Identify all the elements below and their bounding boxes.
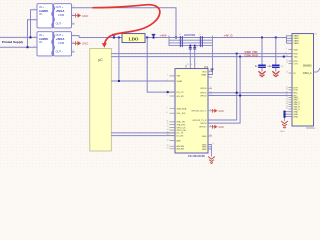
svg-text:6: 6	[167, 95, 168, 97]
svg-text:STA_TX1: STA_TX1	[177, 121, 187, 124]
wire: +5V from PS1 OUT+ along top	[72, 8, 177, 38]
capacitor C2 to GND	[269, 38, 284, 72]
power port GND at PS2 COM	[76, 41, 89, 46]
wire: main rail to LDO input	[79, 37, 122, 39]
ground symbol below IC	[208, 157, 215, 164]
regulator LDO	[122, 34, 145, 43]
ferrite bead column right	[200, 36, 202, 47]
svg-text:TXD: TXD	[294, 56, 299, 58]
junction RX on wire2	[239, 95, 241, 97]
svg-text:5: 5	[286, 48, 287, 50]
wire: supply rail A from left edge	[0, 36, 37, 38]
junction cap C1	[261, 37, 263, 39]
svg-text:IC1: IC1	[204, 65, 209, 69]
svg-text:15: 15	[210, 135, 212, 137]
svg-text:VCAP: VCAP	[177, 80, 183, 83]
DC-DC module PS1 (isolated converter, top)	[37, 4, 72, 28]
svg-text:GND: GND	[82, 42, 88, 46]
svg-text:1: 1	[34, 36, 35, 38]
svg-text:5: 5	[167, 91, 168, 93]
svg-text:GPIO17: GPIO17	[199, 127, 207, 129]
junction: drop B	[146, 37, 148, 39]
wire: vertical to PSU1 IN+	[31, 10, 38, 38]
junction on rail A	[30, 36, 32, 38]
junction UART TX drop	[236, 53, 238, 55]
capacitor on tap 1	[189, 48, 192, 49]
svg-text:23: 23	[210, 87, 212, 89]
svg-text:6: 6	[191, 64, 192, 66]
filter designators	[179, 34, 201, 48]
wire: IC right to SIM wire 2	[208, 95, 292, 97]
wire: uC lower pair to IC 1	[111, 132, 175, 134]
wire: main rail right section to SIM module	[213, 37, 287, 39]
svg-text:4: 4	[286, 42, 287, 44]
wire: PS2 OUT+ to main rail	[72, 36, 80, 38]
pin stub PS2 COM	[72, 42, 76, 44]
wire: uC lower pair to IC 2	[111, 135, 175, 137]
svg-text:GND: GND	[202, 149, 207, 151]
wire: drop B down to IC pin	[147, 38, 175, 93]
svg-text:1: 1	[167, 75, 168, 77]
svg-text:IN +: IN +	[39, 5, 44, 9]
filter line 1	[169, 37, 213, 39]
svg-text:7: 7	[195, 64, 196, 66]
svg-text:GND: GND	[218, 110, 224, 113]
power port at IC right pin	[210, 69, 213, 72]
svg-text:RXD: RXD	[294, 53, 299, 55]
wire: UART RX from uC to SIM	[111, 56, 292, 58]
svg-text:15: 15	[286, 72, 288, 74]
junction tap1	[189, 45, 191, 47]
svg-text:LDO: LDO	[129, 37, 139, 42]
svg-text:GPIO26_CLK_T: GPIO26_CLK_T	[191, 111, 207, 113]
junction at +4V power port	[153, 37, 155, 39]
svg-text:VIN: VIN	[177, 76, 181, 78]
svg-text:OUT +: OUT +	[56, 33, 64, 37]
svg-text:UC_RX: UC_RX	[177, 135, 185, 137]
wire: LDO output rail	[145, 37, 169, 39]
svg-text:+4V_G: +4V_G	[224, 34, 234, 38]
svg-text:COM: COM	[58, 41, 64, 45]
junction TX on wire1	[236, 92, 238, 94]
svg-text:CTS: CTS	[294, 63, 299, 65]
svg-text:16: 16	[210, 126, 212, 128]
svg-text:Printed Supply: Printed Supply	[2, 40, 24, 44]
red annotation arrow	[93, 5, 160, 48]
svg-text:DCD: DCD	[294, 90, 299, 92]
svg-text:µC: µC	[98, 58, 103, 62]
svg-text:16: 16	[167, 134, 169, 136]
pin stub PS2 OUT-	[72, 51, 75, 53]
left bar	[168, 36, 170, 46]
svg-text:VDD: VDD	[294, 49, 299, 51]
junction cap C2	[275, 37, 277, 39]
IC GND pins to ground	[208, 145, 212, 157]
ferrite bead column left	[180, 36, 182, 47]
svg-text:ADCIN1: ADCIN1	[177, 148, 185, 151]
svg-text:OUT -: OUT -	[56, 50, 63, 54]
svg-text:VDD: VDD	[202, 72, 207, 74]
svg-text:+5V/1A: +5V/1A	[56, 9, 65, 13]
svg-text:2: 2	[34, 18, 35, 20]
svg-text:OUT -: OUT -	[56, 22, 63, 26]
svg-text:SCL_SCL: SCL_SCL	[177, 113, 187, 115]
svg-text:22: 22	[286, 89, 288, 91]
power port GND at PS1 COM	[76, 13, 89, 18]
svg-text:20: 20	[210, 110, 212, 112]
svg-text:SIM800L: SIM800L	[306, 128, 316, 130]
capacitor C1 to GND	[255, 38, 270, 72]
svg-text:15: 15	[167, 132, 169, 134]
pin stub PS1 COM	[72, 15, 76, 17]
svg-text:COM: COM	[58, 13, 64, 17]
IC right pin stubs	[208, 72, 213, 149]
svg-text:VBAT: VBAT	[201, 73, 207, 76]
svg-text:SIM_V: SIM_V	[294, 109, 301, 111]
svg-text:GPIO4: GPIO4	[200, 123, 207, 125]
wire: UART TX from uC to SIM	[111, 53, 292, 55]
wire: drop to uC power wire	[118, 38, 120, 82]
right bar	[212, 36, 214, 47]
svg-text:17: 17	[167, 139, 169, 141]
junction top rail joins main rail	[175, 37, 177, 39]
svg-text:PIC18F26K80: PIC18F26K80	[188, 154, 205, 158]
svg-text:5: 5	[73, 22, 74, 24]
svg-text:9: 9	[286, 52, 287, 54]
wire: vertical to PSU1 IN-	[28, 20, 38, 47]
pin stub PS1 OUT-	[72, 23, 75, 25]
ground symbol below SIM	[281, 121, 288, 128]
SIM GND pins bar	[285, 112, 293, 121]
junction UART RX drop	[239, 56, 241, 58]
wire: RX vertical drop	[208, 57, 240, 124]
svg-text:22: 22	[210, 91, 212, 93]
junction on RX wire at SIM	[283, 56, 285, 58]
ground symbol below C1	[258, 71, 265, 76]
junction on wire to IC	[167, 91, 169, 93]
wire: filter tap 2 down to IC top pin	[194, 46, 196, 69]
svg-text:8: 8	[213, 143, 214, 145]
svg-text:14: 14	[167, 129, 169, 131]
svg-text:U2: U2	[315, 34, 317, 36]
wire: IC right to SIM wire 1	[208, 92, 292, 94]
wire: supply rail B from left edge	[0, 46, 37, 48]
junction on rail B	[27, 46, 29, 48]
svg-text:3: 3	[73, 6, 74, 8]
power port +5V at x=114	[112, 34, 116, 37]
svg-text:L2: L2	[199, 34, 201, 36]
svg-text:ADCIN0: ADCIN0	[177, 145, 185, 148]
junction drop A on uC power wire	[118, 80, 120, 82]
svg-text:SDA_SDA: SDA_SDA	[177, 108, 187, 111]
filter line 4	[169, 45, 213, 47]
svg-text:GND: GND	[202, 136, 207, 138]
svg-text:VBAT: VBAT	[294, 42, 300, 45]
svg-text:GPIO2: GPIO2	[200, 95, 207, 97]
svg-text:SIM800: SIM800	[303, 65, 312, 68]
svg-text:7: 7	[167, 107, 168, 109]
svg-text:LIN_RX: LIN_RX	[177, 96, 185, 98]
filter line 3	[169, 42, 213, 44]
svg-text:GND: GND	[218, 126, 224, 129]
svg-text:GND: GND	[82, 14, 88, 18]
svg-text:2: 2	[34, 46, 35, 48]
junction tap2	[194, 45, 196, 47]
power port +4V at x=153.5	[152, 34, 156, 37]
svg-text:4: 4	[73, 42, 74, 44]
svg-text:18: 18	[286, 91, 288, 93]
svg-text:2: 2	[167, 80, 168, 82]
svg-text:21: 21	[210, 94, 212, 96]
svg-text:ACM7060: ACM7060	[184, 34, 196, 37]
pin numbers (gray) assorted	[34, 6, 317, 150]
svg-text:4: 4	[73, 14, 74, 16]
svg-text:3: 3	[73, 34, 74, 36]
IC top pins	[185, 65, 187, 69]
microcontroller uC	[90, 48, 112, 151]
svg-text:GPIO25_TX_R: GPIO25_TX_R	[193, 120, 207, 122]
svg-text:28: 28	[209, 70, 211, 72]
svg-text:GND: GND	[280, 131, 285, 133]
svg-text:10: 10	[286, 55, 288, 57]
DC-DC module PS2 (isolated converter, bottom)	[37, 32, 72, 56]
svg-text:+4V0: +4V0	[160, 34, 167, 38]
SIM left pin stubs	[289, 50, 293, 110]
wire: TX vertical drop	[208, 54, 237, 120]
svg-text:1: 1	[34, 8, 35, 10]
svg-text:L1: L1	[179, 34, 181, 36]
IC left pin stubs	[170, 76, 176, 149]
svg-text:30: 30	[286, 108, 288, 110]
wire: uC power wire to IC	[111, 80, 175, 82]
filter bank FB1-FB4 between bars	[169, 36, 213, 47]
svg-text:19: 19	[167, 148, 169, 150]
wire: drop from right bar to IC right pin	[208, 47, 213, 75]
ground symbol below C2	[272, 71, 279, 76]
svg-text:UC_TX: UC_TX	[177, 133, 184, 135]
SIM antenna pin	[314, 68, 320, 72]
filter line 2	[169, 39, 213, 41]
svg-text:IN +: IN +	[39, 33, 44, 37]
IC internal pin names left	[177, 76, 187, 151]
SIM internal pin names left	[294, 35, 301, 119]
IC internal pin names right	[191, 72, 207, 151]
svg-text:SPIO_DA: SPIO_DA	[177, 129, 187, 132]
svg-text:5: 5	[73, 50, 74, 52]
junction dots on SIM GND bar	[283, 111, 285, 113]
power port GND at IC right mid2	[213, 125, 224, 129]
svg-text:32: 32	[187, 64, 189, 66]
svg-text:12: 12	[286, 62, 288, 64]
VBAT pin bar at SIM module	[287, 36, 293, 44]
junction at +5V power port	[113, 37, 115, 39]
svg-text:GPIO0: GPIO0	[200, 88, 207, 90]
wire: filter tap 1 down to IC top pin	[189, 46, 191, 69]
svg-text:OUT +: OUT +	[56, 5, 64, 9]
interface IC U1	[175, 65, 209, 158]
svg-text:GSM_RXD: GSM_RXD	[245, 53, 258, 57]
svg-text:IN -: IN -	[39, 12, 43, 16]
svg-text:LIN_TX: LIN_TX	[177, 92, 185, 94]
svg-text:IN -: IN -	[39, 40, 43, 44]
svg-text:8: 8	[167, 112, 168, 114]
svg-text:MIC+: MIC+	[294, 93, 300, 95]
capacitor on tap 2	[193, 48, 196, 49]
svg-text:+4V/1A: +4V/1A	[56, 37, 65, 41]
svg-text:GND: GND	[294, 116, 299, 118]
junction: rail drop to uC supply	[118, 37, 120, 39]
svg-text:GPIO1: GPIO1	[200, 93, 207, 95]
svg-text:GSM_A: GSM_A	[303, 72, 312, 75]
svg-text:STA_RX1: STA_RX1	[177, 123, 187, 126]
svg-text:11: 11	[167, 121, 169, 123]
GSM module U2	[280, 34, 316, 133]
power port GND at IC right mid1	[213, 109, 224, 113]
svg-text:12: 12	[167, 123, 169, 125]
